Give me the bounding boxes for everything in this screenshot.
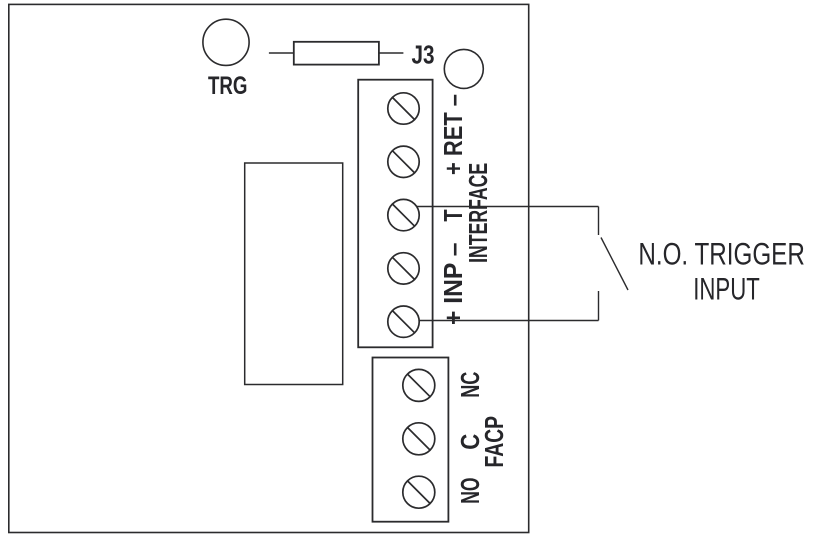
wire switch to +INP terminal [419,320,599,322]
svg-text:N.O. TRIGGER: N.O. TRIGGER [638,236,805,272]
screw terminal C [403,423,435,455]
wire jumper left lead [269,52,294,54]
relay K1 body [245,163,343,385]
pad (mounting hole) [444,49,483,88]
terminal block TB2 (FACP) body [373,358,449,522]
screw terminal NO [403,476,435,508]
screw terminal NC [403,369,435,401]
svg-text:NO: NO [455,478,485,504]
svg-text:NC: NC [455,371,485,397]
screw terminal 2 (+ RET) [388,146,419,177]
wire switch top vertical [598,207,600,236]
screw terminal 5 (+ INP) [388,306,419,337]
wire T terminal to switch [417,206,599,208]
svg-text:TRG: TRG [208,72,248,100]
screw terminal 1 (- RET) [388,93,419,124]
wire switch bottom vertical [598,291,600,321]
pad TRG [203,19,249,65]
terminal block TB1 (INTERFACE) body [358,80,432,348]
svg-text:+ RET –: + RET – [438,94,468,175]
jumper J3 body [294,42,379,65]
svg-text:J3: J3 [412,40,435,70]
svg-text:FACP: FACP [479,416,509,468]
screw terminal 3 (T) [388,199,419,230]
svg-text:INPUT: INPUT [693,270,760,306]
wire jumper right lead [379,52,404,54]
screw terminal 4 (- INP) [388,253,419,284]
switch blade (N.O.) [601,238,628,291]
svg-text:INTERFACE: INTERFACE [463,163,493,263]
PCB board outline [9,4,529,532]
